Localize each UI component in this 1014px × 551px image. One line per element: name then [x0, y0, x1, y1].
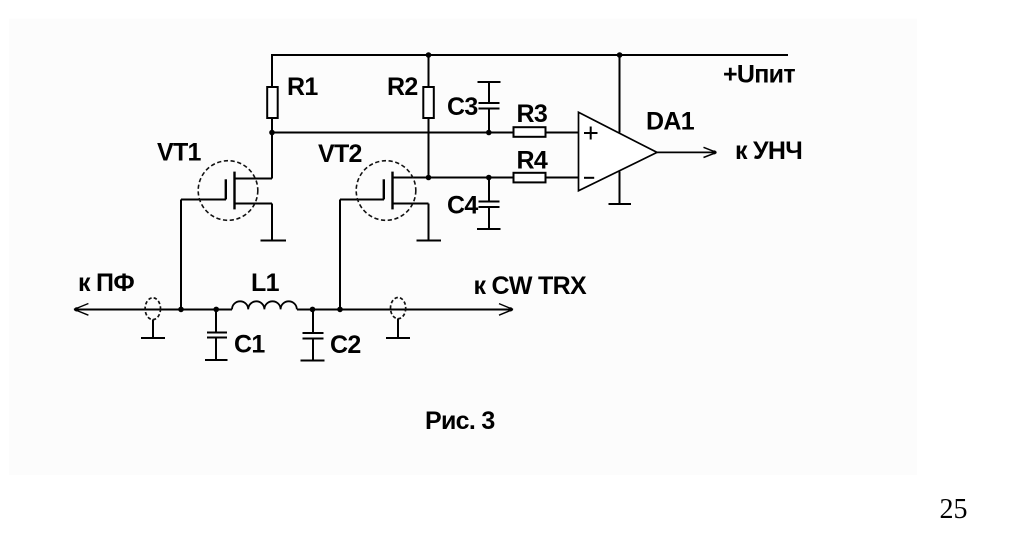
- junction node C1/rail: [213, 307, 219, 313]
- capacitor C4 plates: [478, 202, 499, 207]
- capacitor C4 top stem: [488, 178, 490, 202]
- svg-text:Рис. 3: Рис. 3: [425, 407, 495, 435]
- capacitor C1 bottom stem: [215, 338, 217, 360]
- wire VT2 gate column to LC rail: [339, 199, 341, 309]
- resistor R1 body: [267, 87, 278, 118]
- ground bar under C2: [300, 359, 324, 361]
- ground bar under VT2: [417, 240, 442, 242]
- connector ellipse left: [145, 298, 160, 320]
- svg-text:C4: C4: [447, 192, 478, 220]
- svg-text:к CW TRX: к CW TRX: [474, 272, 587, 300]
- svg-text:VT1: VT1: [157, 139, 202, 167]
- junction node C2/rail: [310, 307, 316, 313]
- wire VT1 drain lead: [235, 178, 273, 180]
- op-amp DA1 triangle: [579, 112, 658, 191]
- svg-text:R1: R1: [287, 73, 318, 101]
- junction node VT1 gate/rail: [178, 307, 184, 313]
- ground bar under VT1: [260, 239, 286, 241]
- ground bar under op-amp: [608, 203, 631, 205]
- junction node supply/top rail: [617, 52, 623, 58]
- svg-text:C3: C3: [447, 93, 478, 121]
- transistor VT2 envelope circle: [356, 161, 416, 221]
- transistor VT1 envelope circle: [198, 161, 258, 221]
- junction node C4/-input wire: [486, 175, 492, 181]
- transistor VT2 channel bar: [391, 172, 393, 210]
- inductor L1 winding: [232, 301, 297, 309]
- op-amp DA1 plus input marking: [584, 127, 598, 140]
- arrowhead right to CW TRX: [499, 304, 513, 316]
- svg-text:VT2: VT2: [318, 140, 362, 168]
- capacitor C3 plates: [478, 103, 499, 108]
- capacitor C2 plates: [303, 333, 324, 338]
- capacitor C3 bottom stem: [488, 109, 490, 133]
- junction node R2/VT2 drain: [426, 175, 432, 181]
- ground tick under left connector: [141, 337, 165, 339]
- capacitor C4 bottom stem: [488, 207, 490, 229]
- junction node R2/top rail: [426, 52, 432, 58]
- junction node R1/VT1 drain: [269, 130, 275, 136]
- wire op-amp negative pin drop: [619, 172, 621, 204]
- op-amp DA1 minus input marking: [584, 177, 594, 179]
- ground bar under C1: [205, 359, 228, 361]
- svg-text:C2: C2: [330, 331, 361, 359]
- arrowhead left to band filter: [74, 304, 88, 316]
- capacitor C2 bottom stem: [312, 338, 314, 360]
- wire VT2 source drop: [428, 204, 430, 241]
- capacitor C3 top stem: [488, 82, 490, 103]
- wire VT2-drain node to R4 (- input net): [429, 177, 579, 179]
- capacitor C3 top terminal bar: [478, 81, 501, 83]
- ground tick under right connector: [386, 337, 410, 339]
- connector ellipse right: [391, 298, 406, 319]
- svg-text:L1: L1: [251, 269, 280, 297]
- resistor R3 body: [514, 127, 546, 137]
- wire VT1 gate column to LC rail: [180, 199, 182, 309]
- svg-text:C1: C1: [234, 331, 265, 359]
- wire VT1 source lead: [235, 202, 273, 204]
- wire LC rail left segment: [74, 308, 232, 310]
- wire VT2 drain lead: [393, 177, 429, 179]
- arrowhead to AF amplifier: [704, 147, 717, 157]
- capacitor C1 top stem: [215, 309, 217, 332]
- svg-text:DA1: DA1: [646, 107, 695, 135]
- wire VT2 gate lead: [340, 198, 384, 200]
- wire R2 top lead: [428, 54, 430, 87]
- svg-text:R2: R2: [387, 73, 418, 101]
- capacitor C1 plates: [207, 333, 227, 338]
- wire op-amp output: [657, 151, 716, 153]
- resistor R4 body: [514, 173, 546, 183]
- ground bar under C4: [477, 228, 500, 230]
- resistor R2 body: [423, 87, 434, 118]
- svg-text:+Uпит: +Uпит: [723, 60, 795, 88]
- wire VT2 source lead: [393, 203, 429, 205]
- wire R2 bottom lead to VT2 drain: [428, 118, 430, 178]
- connector stem right: [397, 319, 399, 338]
- wire VT1 gate lead: [181, 198, 226, 200]
- wire LC rail right segment: [297, 308, 513, 310]
- wire R1 bottom lead: [271, 118, 273, 134]
- wire top supply rail: [272, 54, 788, 56]
- capacitor C2 top stem: [312, 309, 314, 333]
- transistor VT2 gate bar: [383, 179, 385, 199]
- connector stem left: [152, 320, 154, 339]
- wire R1 top lead: [271, 54, 273, 87]
- wire VT1 source drop: [271, 203, 273, 240]
- svg-text:к УНЧ: к УНЧ: [735, 137, 802, 165]
- transistor VT1 gate bar: [225, 179, 227, 199]
- svg-text:R4: R4: [517, 147, 548, 175]
- junction node VT2 gate/rail: [337, 307, 343, 313]
- wire op-amp positive supply drop: [619, 54, 621, 133]
- svg-text:R3: R3: [517, 100, 548, 128]
- transistor VT1 channel bar: [233, 172, 235, 210]
- svg-text:25: 25: [940, 494, 968, 525]
- wire VT1 drain riser: [271, 133, 273, 179]
- junction node C3/+input wire: [486, 130, 492, 136]
- wire VT1-drain node to R3 (+ input net): [272, 132, 579, 134]
- svg-text:к ПФ: к ПФ: [78, 269, 134, 297]
